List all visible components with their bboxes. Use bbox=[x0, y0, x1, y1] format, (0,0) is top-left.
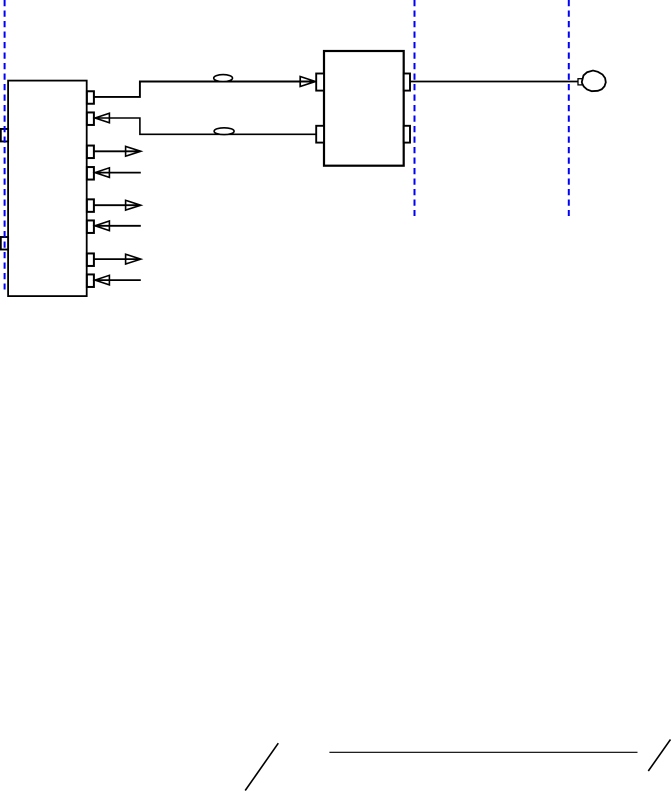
hierarchy port dashed line right bbox=[568, 0, 570, 216]
U1 pin 6 (right, in) with stub arrow bbox=[87, 220, 94, 233]
U1 left pin B bbox=[1, 237, 8, 250]
arrowhead pin3 bbox=[126, 146, 141, 156]
wire (net N3: U2 pin3 to off-page connector) bbox=[410, 81, 578, 83]
U1 pin 7 (right, out) with stub arrow bbox=[87, 253, 94, 266]
U1 pin 3 (right, out) with stub arrow bbox=[87, 146, 94, 159]
arrowhead pin5 bbox=[126, 200, 141, 210]
wire stub pin3 bbox=[94, 150, 140, 152]
wire (net N2: U2 pin2 to U1 pin2) bbox=[95, 118, 316, 134]
bubble on net N2 bbox=[214, 128, 234, 135]
title block rule bbox=[329, 751, 637, 753]
U2 pin 2 (left bottom) bbox=[316, 126, 324, 143]
hierarchy port dashed line left bbox=[4, 0, 6, 290]
arrowhead pin4 bbox=[95, 168, 109, 178]
wire stub pin6 bbox=[95, 225, 141, 227]
wire stub pin8 bbox=[95, 279, 141, 281]
off-page connector blob bbox=[582, 71, 606, 92]
title block slash left bbox=[245, 743, 278, 790]
U1 pin 5 (right, out) with stub arrow bbox=[87, 199, 94, 212]
block U2 (right hierarchical block) bbox=[324, 51, 404, 166]
title block slash right bbox=[648, 740, 670, 772]
wire stub pin5 bbox=[94, 204, 140, 206]
arrowhead pin6 bbox=[95, 221, 109, 231]
wire stub pin4 bbox=[95, 172, 141, 174]
wire stub pin7 bbox=[94, 258, 140, 260]
off-page connector terminal square bbox=[578, 79, 582, 85]
U1 pin 4 (right, in) with stub arrow bbox=[87, 167, 94, 180]
block U1 (left hierarchical block) bbox=[8, 81, 87, 297]
U1 left pin A bbox=[1, 129, 8, 142]
arrowhead into U1 pin 2 bbox=[95, 113, 109, 123]
wire (net N1 top: U1 pin1 to U2 pin1) bbox=[94, 82, 314, 97]
arrowhead into U2 pin1 bbox=[300, 77, 315, 87]
U2 pin 1 (left top) bbox=[316, 74, 324, 91]
U1 pin 2 (right, in) bbox=[87, 112, 94, 125]
arrowhead pin7 bbox=[126, 254, 141, 264]
U2 pin 3 (right top) bbox=[404, 74, 410, 91]
U2 pin 4 (right bottom) bbox=[404, 126, 410, 143]
hierarchy port dashed line middle bbox=[414, 0, 416, 216]
arrowhead pin8 bbox=[95, 275, 109, 285]
bubble on net N1 bbox=[214, 75, 233, 82]
U1 pin 1 (right, out) bbox=[87, 91, 94, 104]
U1 pin 8 (right, in) with stub arrow bbox=[87, 274, 94, 287]
